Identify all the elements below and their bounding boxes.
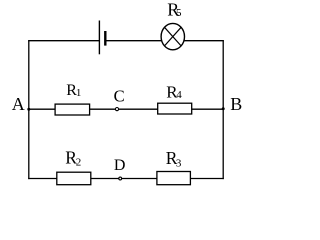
svg-text:2: 2: [76, 156, 82, 168]
svg-text:B: B: [230, 94, 242, 114]
svg-text:C: C: [114, 87, 125, 106]
svg-text:1: 1: [76, 87, 82, 99]
svg-text:3: 3: [176, 158, 182, 170]
svg-text:4: 4: [176, 89, 182, 101]
svg-text:5: 5: [176, 7, 182, 19]
svg-text:A: A: [12, 94, 25, 114]
svg-text:D: D: [114, 157, 126, 174]
